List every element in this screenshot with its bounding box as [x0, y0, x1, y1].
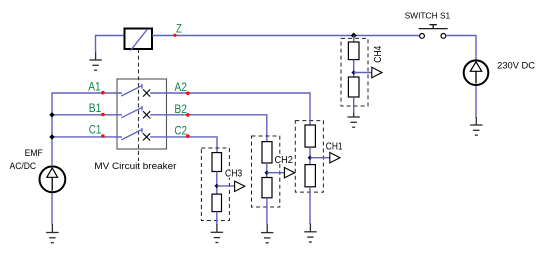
wire: EMF source to ground: [51, 193, 53, 224]
svg-text:B2: B2: [174, 104, 187, 116]
wire CH3 junction to probe: [217, 185, 235, 187]
ground below 230V source: [470, 117, 482, 135]
svg-text:A2: A2: [174, 82, 187, 94]
junction: bus at phase C: [49, 134, 54, 139]
CH1 dashed enclosure: [295, 121, 323, 193]
svg-text:C2: C2: [174, 125, 187, 137]
source V1 230V DC (circle with up arrow): [464, 60, 489, 85]
ground CH1: [304, 224, 316, 243]
pin dot C2: [186, 134, 190, 138]
pin dot B2: [186, 113, 190, 117]
EMF source (circle with up arrow): [40, 166, 66, 192]
pin dot A2: [186, 92, 190, 96]
junction: CH4 tap on main wire: [351, 33, 357, 39]
resistor CH2 upper: [262, 142, 272, 163]
breaker contact X phase C: [143, 133, 150, 140]
probe triangle CH2: [284, 168, 294, 178]
MV Circuit breaker enclosure box: [117, 79, 167, 149]
wire: top-left vertical down to ground: [95, 35, 97, 53]
wire: top-left horizontal to coil: [96, 35, 125, 37]
wire phase B left: [51, 114, 122, 116]
label CH3: [224, 169, 244, 178]
pin dot B1: [101, 113, 105, 117]
wire: 230V source down to ground: [475, 86, 477, 118]
wire: switch to 230V source: [446, 36, 476, 60]
switch S1 (pushbutton): [419, 25, 448, 39]
breaker contact blade phase A: [121, 84, 142, 96]
junction CH1: [308, 155, 313, 160]
ground CH2: [261, 224, 273, 243]
svg-text:230V DC: 230V DC: [497, 61, 535, 71]
CH4 dashed enclosure: [341, 38, 368, 106]
wire phase C left: [51, 136, 122, 138]
breaker contact blade phase B: [121, 106, 142, 118]
breaker contact blade phase C: [121, 128, 142, 140]
probe triangle CH1: [330, 153, 340, 163]
node Z pin dot: [173, 34, 176, 37]
wire CH4 to ground: [353, 97, 355, 113]
wire CH3 to ground: [216, 212, 218, 225]
wire phase B right to CH2: [150, 115, 267, 142]
left bus vertical wire: [51, 93, 53, 165]
svg-text:CH1: CH1: [326, 141, 343, 152]
resistor CH1 lower: [305, 165, 315, 187]
svg-text:Z: Z: [176, 24, 182, 36]
resistor CH2 lower: [262, 178, 272, 198]
probe triangle CH4: [372, 67, 382, 77]
junction CH2: [265, 170, 270, 175]
wire CH4 junction to probe: [354, 72, 372, 74]
svg-text:CH4: CH4: [372, 46, 384, 63]
resistor CH4 lower: [348, 77, 359, 97]
svg-text:SWITCH S1: SWITCH S1: [405, 11, 451, 20]
ground below EMF: [46, 224, 58, 243]
svg-text:AC/DC: AC/DC: [10, 161, 37, 172]
resistor CH3 upper: [212, 153, 222, 172]
svg-text:C1: C1: [89, 124, 102, 136]
pin dot A1: [101, 91, 105, 95]
wire phase A left: [51, 92, 122, 94]
junction: bus at phase B: [49, 112, 54, 117]
resistor CH4 upper: [348, 42, 359, 60]
svg-text:B1: B1: [89, 103, 102, 115]
wire: coil to switch S1 (main top wire): [152, 35, 419, 37]
wire between CH2 resistors: [266, 163, 268, 178]
label CH2: [274, 155, 294, 164]
CH2 dashed enclosure: [252, 136, 280, 207]
wire CH2 to ground: [266, 198, 268, 225]
svg-text:CH3: CH3: [225, 169, 243, 180]
wire CH1 junction to probe: [310, 157, 330, 159]
ground CH4: [348, 113, 360, 128]
wire between CH4 resistors: [353, 60, 355, 77]
ground CH3: [211, 224, 223, 243]
wire phase A right to CH1: [150, 93, 310, 125]
wire main to CH4 upper resistor: [353, 36, 355, 43]
pin dot C1: [101, 134, 105, 138]
junction CH4: [351, 70, 356, 75]
breaker trip coil (rectangle with blue diagonal): [125, 29, 153, 51]
breaker contact X phase A: [143, 89, 150, 96]
ground G1 top-left: [89, 53, 101, 71]
wire between CH3 resistors: [216, 172, 218, 195]
resistor CH1 upper: [305, 125, 315, 147]
wire CH2 junction to probe: [267, 172, 285, 174]
CH3 dashed enclosure: [201, 148, 229, 221]
junction CH3: [215, 184, 220, 189]
wire CH1 to ground: [309, 187, 311, 224]
resistor CH3 lower: [212, 194, 222, 212]
svg-text:CH2: CH2: [275, 155, 294, 166]
mechanical linkage (dashed) from coil through box: [138, 49, 140, 161]
breaker contact X phase B: [143, 111, 150, 118]
svg-text:A1: A1: [88, 82, 101, 94]
svg-text:EMF: EMF: [25, 148, 43, 159]
wire phase C right to CH3: [150, 137, 217, 153]
svg-text:MV Circuit breaker: MV Circuit breaker: [94, 161, 176, 172]
probe triangle CH3: [235, 181, 245, 191]
wire between CH1 resistors: [309, 147, 311, 165]
